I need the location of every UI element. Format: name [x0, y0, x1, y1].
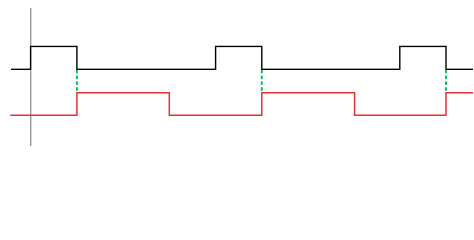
timing diagram: [0, 0, 474, 146]
green dashed marker 2: [261, 70, 263, 94]
green dashed marker 3: [445, 70, 447, 94]
green dashed marker 1: [76, 70, 78, 94]
red output waveform: [10, 93, 473, 116]
black input waveform: [11, 46, 473, 69]
axis vertical line: [30, 8, 32, 146]
